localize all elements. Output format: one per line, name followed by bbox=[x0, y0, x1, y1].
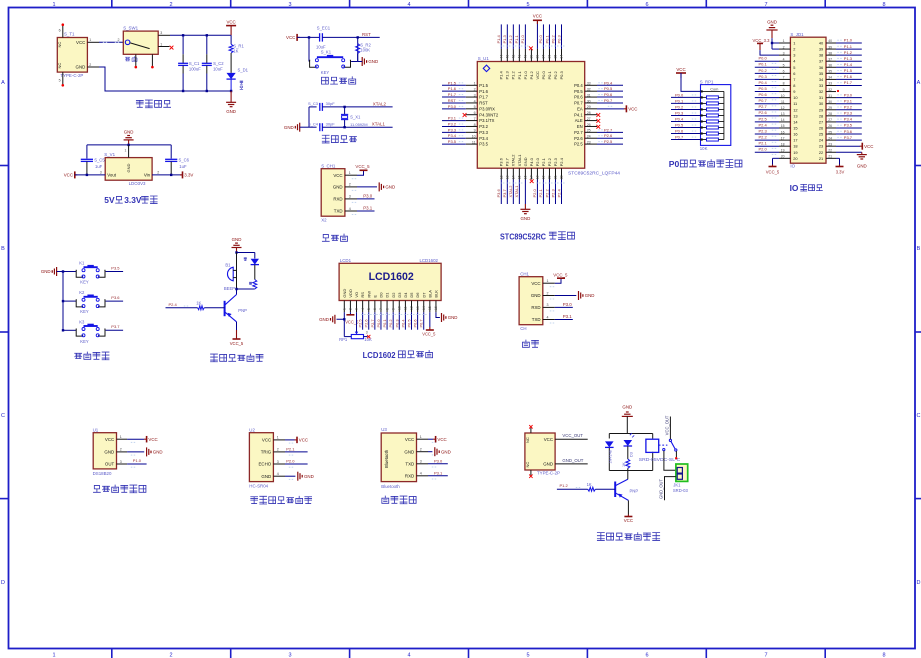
svg-text:P3.1/TX: P3.1/TX bbox=[479, 118, 494, 123]
wire net P2.1 TRIG bbox=[285, 451, 308, 453]
svg-text:33: 33 bbox=[819, 83, 823, 88]
svg-text:28: 28 bbox=[587, 111, 591, 115]
svg-text:P0.3: P0.3 bbox=[759, 74, 768, 79]
wire net P3.3 (JD1 right) bbox=[836, 115, 862, 117]
wire net P2.2 (bottom) bbox=[548, 180, 550, 205]
svg-text:P2.4: P2.4 bbox=[759, 122, 768, 127]
svg-text:P1.6: P1.6 bbox=[844, 74, 853, 79]
svg-text:VCC: VCC bbox=[628, 107, 637, 112]
wire GND_OUT bbox=[555, 463, 588, 465]
svg-text:S_K1: S_K1 bbox=[321, 49, 332, 54]
svg-text:2: 2 bbox=[783, 45, 785, 49]
svg-text:GND: GND bbox=[342, 289, 347, 298]
svg-text:3: 3 bbox=[783, 51, 785, 55]
svg-text:P0.1: P0.1 bbox=[547, 70, 552, 79]
JD1 pin 32 (right) bbox=[826, 91, 836, 93]
svg-text:P3.0: P3.0 bbox=[434, 458, 443, 463]
JD1 pin 21 (right) bbox=[826, 157, 836, 159]
svg-text:2: 2 bbox=[420, 448, 422, 452]
JD1 pin 36 (right) bbox=[826, 66, 836, 68]
svg-text:37: 37 bbox=[828, 57, 832, 61]
capacitor S_EC1 10uF bbox=[319, 33, 321, 41]
wire net P0.3 pullup bbox=[671, 114, 701, 116]
svg-text:P2.1: P2.1 bbox=[538, 188, 543, 197]
MCU top pin 36 P0.1 bbox=[548, 49, 550, 62]
svg-text:40: 40 bbox=[828, 39, 832, 43]
svg-text:P3.6: P3.6 bbox=[111, 295, 120, 300]
svg-text:22: 22 bbox=[560, 175, 564, 179]
svg-text:1: 1 bbox=[547, 279, 549, 283]
MCU top pin 35 P0.2 bbox=[554, 49, 556, 62]
wire net P0.6 (right) bbox=[597, 96, 623, 98]
wire net P3.1 BT bbox=[428, 475, 448, 477]
svg-text:P0.0: P0.0 bbox=[376, 319, 381, 328]
svg-text:26: 26 bbox=[587, 123, 591, 127]
wire net P1.5 (left) bbox=[442, 84, 466, 86]
svg-text:2: 2 bbox=[793, 47, 795, 52]
svg-text:15: 15 bbox=[428, 306, 432, 310]
svg-text:23: 23 bbox=[828, 142, 832, 146]
svg-text:6: 6 bbox=[373, 308, 377, 310]
svg-text:P0.0: P0.0 bbox=[759, 56, 768, 61]
ground GND reset bbox=[361, 57, 363, 66]
svg-text:1: 1 bbox=[52, 2, 55, 8]
svg-text:P1.4: P1.4 bbox=[499, 70, 504, 79]
svg-text:D3: D3 bbox=[397, 292, 402, 298]
svg-text:P0: P0 bbox=[669, 159, 680, 169]
JD1 pin 10 (left) bbox=[779, 97, 790, 99]
wire net P3.5 bbox=[106, 271, 124, 273]
svg-text:S_JD1: S_JD1 bbox=[790, 32, 804, 37]
wire net P3.4 (left) bbox=[442, 137, 466, 139]
svg-text:K3: K3 bbox=[79, 320, 85, 325]
RP1 resistor element P0.2 bbox=[701, 108, 707, 110]
wire net P2.5 LCD bbox=[362, 312, 364, 329]
resistor 1K relay base bbox=[595, 488, 615, 490]
svg-text:GND: GND bbox=[304, 474, 314, 479]
svg-text:GND: GND bbox=[585, 293, 595, 298]
svg-text:D5: D5 bbox=[409, 292, 414, 298]
svg-text:1: 1 bbox=[277, 436, 279, 440]
MCU top pin 43 P1.3 bbox=[506, 49, 508, 62]
svg-text:DS18B20: DS18B20 bbox=[93, 471, 112, 476]
JD1 pin 24 (right) bbox=[826, 139, 836, 141]
svg-text:P3.2: P3.2 bbox=[479, 124, 488, 129]
svg-text:11: 11 bbox=[472, 141, 476, 145]
wire net P2.4 (JD1 left) bbox=[755, 127, 779, 129]
wire net P2.4 bbox=[166, 307, 198, 309]
svg-text:VCC_5: VCC_5 bbox=[553, 272, 568, 277]
svg-text:VCC: VCC bbox=[531, 281, 540, 286]
switch bottom pin b bbox=[151, 54, 153, 66]
svg-text:VCC: VCC bbox=[148, 437, 157, 442]
wire net P2.4 (bottom) bbox=[561, 180, 563, 205]
svg-text:19: 19 bbox=[541, 175, 545, 179]
wire net P3.1 (JD1 right) bbox=[836, 103, 862, 105]
svg-text:21: 21 bbox=[553, 175, 557, 179]
svg-text:3: 3 bbox=[349, 195, 351, 199]
svg-text:SRD-03: SRD-03 bbox=[673, 488, 689, 493]
svg-text:1: 1 bbox=[474, 82, 476, 86]
svg-text:P1.6: P1.6 bbox=[448, 86, 457, 91]
wire EA to VCC bbox=[597, 108, 624, 110]
transistor Q1 PNP bbox=[236, 289, 238, 295]
svg-text:S_R1: S_R1 bbox=[233, 43, 244, 48]
wire net P0.7 (right) bbox=[597, 102, 623, 104]
svg-text:Bluetooth: Bluetooth bbox=[381, 484, 400, 489]
svg-text:36: 36 bbox=[819, 65, 823, 70]
wire net P0.3 (top) bbox=[561, 24, 563, 49]
wire net P1.1 (JD1 right) bbox=[836, 48, 862, 50]
svg-text:VCC: VCC bbox=[535, 71, 540, 80]
connector T1 TYPE-C-2P bbox=[57, 38, 87, 73]
svg-text:VCC: VCC bbox=[405, 437, 414, 442]
svg-text:P2.0: P2.0 bbox=[535, 157, 540, 166]
MCU top pin 42 P1.2 bbox=[512, 49, 514, 62]
svg-text:P2.5: P2.5 bbox=[604, 139, 613, 144]
svg-text:5: 5 bbox=[59, 79, 61, 83]
svg-text:C: C bbox=[917, 413, 921, 419]
wire net P2.1 (JD1 left) bbox=[755, 145, 779, 147]
svg-text:4: 4 bbox=[361, 308, 365, 310]
svg-text:10K: 10K bbox=[700, 146, 708, 151]
MCU bottom pin 22 P2.4 bbox=[561, 168, 563, 179]
capacitor S_C2 10uF bbox=[206, 35, 208, 54]
svg-text:9: 9 bbox=[783, 88, 785, 92]
svg-text:TXD: TXD bbox=[405, 461, 414, 466]
relay switch contact bbox=[659, 444, 668, 446]
wire net P0.5 pullup bbox=[671, 127, 701, 129]
power port VCC_5 serial bbox=[557, 277, 565, 279]
svg-text:S_SW1: S_SW1 bbox=[123, 26, 138, 31]
svg-text:P0.2: P0.2 bbox=[550, 34, 555, 43]
svg-text:P2.0: P2.0 bbox=[532, 188, 537, 197]
resistor 1K base bbox=[204, 307, 224, 309]
MCU left pin 10 P3.4 bbox=[466, 137, 478, 139]
MCU right pin 27 ALE bbox=[585, 120, 597, 122]
svg-text:3: 3 bbox=[420, 460, 422, 464]
wire net P0.7 pullup bbox=[671, 139, 701, 141]
svg-text:GND: GND bbox=[520, 216, 530, 221]
JD1 pin 16 (left) bbox=[779, 133, 790, 135]
svg-text:7: 7 bbox=[379, 308, 383, 310]
svg-text:15: 15 bbox=[781, 124, 785, 128]
svg-text:RXD: RXD bbox=[531, 305, 540, 310]
JD1 pin 18 (left) bbox=[779, 145, 790, 147]
wire net P0.3 LCD bbox=[398, 312, 400, 329]
caption jingzhen dianlu bbox=[322, 135, 329, 143]
svg-text:8: 8 bbox=[783, 82, 785, 86]
caption anjian dianlu bbox=[75, 353, 82, 358]
svg-text:GND: GND bbox=[41, 269, 51, 274]
JD1 pin 15 (left) bbox=[779, 127, 790, 129]
svg-text:20: 20 bbox=[547, 175, 551, 179]
svg-text:11.0592M: 11.0592M bbox=[350, 122, 368, 127]
MCU top pin 44 P1.4 bbox=[500, 49, 502, 62]
svg-text:P0.6: P0.6 bbox=[413, 319, 418, 327]
switch pin 3 bbox=[158, 34, 170, 36]
svg-text:7: 7 bbox=[793, 77, 795, 82]
svg-text:1K: 1K bbox=[233, 49, 238, 54]
svg-text:29: 29 bbox=[819, 107, 823, 112]
MCU right pin 23 P2.5 bbox=[585, 143, 597, 145]
svg-text:14: 14 bbox=[422, 306, 426, 310]
svg-text:P0.3: P0.3 bbox=[556, 34, 561, 43]
svg-text:19: 19 bbox=[793, 150, 797, 155]
svg-text:P1.4: P1.4 bbox=[496, 34, 501, 43]
wire net P0.0 LCD bbox=[380, 312, 382, 329]
svg-text:P1.2: P1.2 bbox=[844, 50, 853, 55]
svg-text:14: 14 bbox=[511, 175, 515, 179]
svg-text:VCC_3.3: VCC_3.3 bbox=[753, 38, 771, 43]
svg-text:XTAL2: XTAL2 bbox=[511, 154, 516, 167]
svg-text:VCC_OUT: VCC_OUT bbox=[665, 415, 670, 435]
wire net P2.7 (JD1 left) bbox=[755, 109, 779, 111]
svg-text:RST: RST bbox=[479, 101, 488, 106]
svg-text:13: 13 bbox=[505, 175, 509, 179]
pot wiper unconnected bbox=[364, 336, 368, 338]
svg-text:P2.7: P2.7 bbox=[759, 104, 768, 109]
svg-text:P3.3: P3.3 bbox=[479, 130, 488, 135]
svg-text:3.3V: 3.3V bbox=[124, 195, 142, 205]
svg-text:CH: CH bbox=[520, 326, 526, 331]
svg-text:P3.3: P3.3 bbox=[448, 127, 457, 132]
svg-text:35: 35 bbox=[819, 71, 823, 76]
svg-text:S_C3: S_C3 bbox=[308, 101, 319, 106]
svg-text:41: 41 bbox=[517, 55, 521, 59]
LED D3 relay bbox=[624, 440, 633, 446]
wire net P3.7 (bottom) bbox=[506, 180, 508, 205]
svg-text:VCC: VCC bbox=[544, 437, 553, 442]
JD1 pin 14 (left) bbox=[779, 121, 790, 123]
svg-text:1N4148: 1N4148 bbox=[609, 450, 613, 463]
svg-text:GND: GND bbox=[523, 157, 528, 166]
svg-text:GND_OUT: GND_OUT bbox=[562, 458, 583, 463]
svg-text:P2.5: P2.5 bbox=[759, 116, 768, 121]
potentiometer RP1 10K bbox=[343, 319, 345, 336]
svg-text:HC-SR04: HC-SR04 bbox=[249, 484, 268, 489]
caption dianyuan dianlu bbox=[136, 100, 143, 107]
wire net P3.2 (left) bbox=[442, 125, 466, 127]
wire net P3.3 (left) bbox=[442, 131, 466, 133]
wire net P0.6 (JD1 left) bbox=[755, 97, 779, 99]
svg-text:S_CH1: S_CH1 bbox=[321, 163, 336, 168]
wire net P0.7 (JD1 left) bbox=[755, 103, 779, 105]
svg-text:2: 2 bbox=[89, 63, 91, 67]
svg-text:6: 6 bbox=[793, 71, 795, 76]
JD1 pin 40 (right) bbox=[826, 42, 836, 44]
svg-text:TYPE-C-2P: TYPE-C-2P bbox=[60, 73, 83, 78]
svg-text:37: 37 bbox=[819, 59, 823, 64]
wire CH1 GND bbox=[555, 295, 577, 297]
svg-text:TRIG: TRIG bbox=[261, 450, 272, 455]
svg-text:18: 18 bbox=[535, 175, 539, 179]
svg-text:37: 37 bbox=[541, 55, 545, 59]
wire alarm top node bbox=[237, 252, 255, 254]
svg-text:28: 28 bbox=[828, 112, 832, 116]
wire net P2.5 (right) bbox=[597, 143, 623, 145]
svg-text:P0.3: P0.3 bbox=[394, 319, 399, 327]
JD1 pin 5 (left) bbox=[779, 66, 790, 68]
svg-text:3: 3 bbox=[355, 308, 359, 310]
svg-text:GND: GND bbox=[124, 129, 134, 134]
relay coil SRD-05VDC-SL-C bbox=[646, 439, 659, 452]
svg-text:P1.5: P1.5 bbox=[844, 68, 853, 73]
svg-text:P0.6: P0.6 bbox=[675, 129, 684, 134]
svg-text:6: 6 bbox=[783, 70, 785, 74]
svg-text:P0.0: P0.0 bbox=[675, 92, 684, 97]
ground GND JD1 pin22 bbox=[836, 151, 862, 153]
svg-text:XTAL1: XTAL1 bbox=[372, 122, 386, 127]
svg-text:JK1: JK1 bbox=[673, 482, 681, 487]
JD1 pin 31 (right) bbox=[826, 97, 836, 99]
svg-text:23: 23 bbox=[819, 144, 823, 149]
svg-text:PNP: PNP bbox=[238, 308, 247, 313]
wire net P0.0 (top) bbox=[542, 24, 544, 49]
svg-text:GND: GND bbox=[543, 462, 553, 467]
svg-text:8: 8 bbox=[385, 308, 389, 310]
svg-text:P1.7: P1.7 bbox=[479, 95, 488, 100]
caption chaoshengbo ceju mokuai bbox=[251, 497, 258, 504]
wire net P0.1 (JD1 left) bbox=[755, 66, 779, 68]
MCU right pin 26 EN bbox=[585, 125, 597, 127]
wire net P3.0 (JD1 right) bbox=[836, 97, 862, 99]
MCU right pin 31 P0.6 bbox=[585, 96, 597, 98]
wire net P0.5 (JD1 left) bbox=[755, 91, 779, 93]
buzzer B1 BEEP bbox=[236, 253, 238, 290]
MCU bottom pin 12 P3.6 bbox=[500, 168, 502, 179]
wire net P3.7 (JD1 right) bbox=[836, 139, 862, 141]
svg-text:P0.1: P0.1 bbox=[544, 34, 549, 43]
svg-text:6: 6 bbox=[645, 2, 648, 8]
svg-text:5: 5 bbox=[474, 105, 476, 109]
svg-text:EA: EA bbox=[577, 106, 583, 111]
wire net P1.5 (JD1 right) bbox=[836, 72, 862, 74]
wire net P1.6 (JD1 right) bbox=[836, 78, 862, 80]
svg-text:Vin: Vin bbox=[144, 173, 151, 178]
svg-text:4: 4 bbox=[277, 472, 279, 476]
svg-text:P1.4: P1.4 bbox=[844, 62, 853, 67]
svg-text:P0.7: P0.7 bbox=[759, 98, 768, 103]
JD1 pin 19 (left) bbox=[779, 151, 790, 153]
svg-text:P1.5: P1.5 bbox=[479, 83, 488, 88]
switch pin 1 (unconnected) bbox=[158, 46, 169, 48]
svg-text:6: 6 bbox=[59, 29, 61, 33]
svg-text:P1.1: P1.1 bbox=[514, 34, 519, 43]
svg-text:IO: IO bbox=[790, 183, 799, 193]
svg-text:34: 34 bbox=[828, 76, 832, 80]
svg-text:P2.6: P2.6 bbox=[604, 133, 613, 138]
svg-text:P2.1: P2.1 bbox=[759, 141, 768, 146]
svg-text:2: 2 bbox=[277, 448, 279, 452]
svg-text:3: 3 bbox=[547, 303, 549, 307]
svg-text:P3.6: P3.6 bbox=[844, 129, 853, 134]
svg-text:S_C1: S_C1 bbox=[189, 61, 200, 66]
svg-text:25: 25 bbox=[819, 132, 823, 137]
MCU right pin 24 P2.6 bbox=[585, 137, 597, 139]
wire net P0.4 LCD bbox=[404, 312, 406, 329]
wire T1 GND down to bottom rail bbox=[99, 67, 183, 91]
wire net XTAL2 (bottom) bbox=[512, 180, 514, 205]
svg-text:GND: GND bbox=[385, 185, 395, 190]
JD1 pin 7 (left) bbox=[779, 78, 790, 80]
svg-text:RXD: RXD bbox=[405, 473, 414, 478]
svg-text:4: 4 bbox=[547, 315, 549, 319]
svg-text:P0.1: P0.1 bbox=[759, 62, 768, 67]
wire net P2.6 LCD bbox=[368, 312, 370, 329]
MCU left pin 8 P3.2 bbox=[466, 125, 478, 127]
JD1 pin 30 (right) bbox=[826, 103, 836, 105]
svg-text:VCC_5: VCC_5 bbox=[355, 164, 370, 169]
ground GND Bluetooth bbox=[434, 447, 436, 456]
svg-text:P3.4: P3.4 bbox=[844, 117, 853, 122]
JD1 pin 33 (right) bbox=[826, 84, 836, 86]
svg-text:RST: RST bbox=[448, 98, 457, 103]
svg-text:1: 1 bbox=[420, 435, 422, 439]
svg-text:EN: EN bbox=[577, 124, 583, 129]
svg-text:S_RP1: S_RP1 bbox=[700, 80, 714, 85]
svg-text:P4.0: P4.0 bbox=[529, 157, 534, 166]
wire X2 RXD / net P3.0 bbox=[357, 198, 375, 200]
power port VCC JD1 pin23 bbox=[836, 145, 860, 147]
power port VCC_5 JD1 pin20 bbox=[773, 157, 780, 159]
JD1 pin 1 (left) bbox=[779, 42, 790, 44]
svg-text:VCC: VCC bbox=[333, 173, 342, 178]
svg-text:4: 4 bbox=[474, 99, 476, 103]
svg-text:KEY: KEY bbox=[80, 339, 89, 344]
svg-text:4: 4 bbox=[407, 2, 410, 8]
svg-text:GND: GND bbox=[441, 449, 451, 454]
svg-text:P1.3: P1.3 bbox=[505, 70, 510, 79]
red no-connect JD1 pin32 bbox=[837, 90, 839, 92]
svg-text:9: 9 bbox=[391, 308, 395, 310]
svg-text:P3.1: P3.1 bbox=[844, 98, 853, 103]
svg-text:NC: NC bbox=[57, 42, 62, 48]
MCU top pin 38 VCC bbox=[536, 49, 538, 62]
wire net P1.3 (top) bbox=[506, 24, 508, 49]
svg-text:GND: GND bbox=[104, 450, 114, 455]
svg-text:VDD: VDD bbox=[348, 289, 353, 298]
svg-text:P2.3: P2.3 bbox=[759, 128, 768, 133]
wire VCC_3.3 to JD1 pin3 bbox=[760, 50, 779, 55]
svg-text:XTAL1: XTAL1 bbox=[514, 185, 519, 198]
wire CH1 VCC to VCC_5 bbox=[555, 278, 561, 283]
ground GND serial bbox=[578, 291, 580, 300]
svg-text:12: 12 bbox=[410, 306, 414, 310]
wire net P3.4 (JD1 right) bbox=[836, 121, 862, 123]
svg-text:34: 34 bbox=[560, 55, 564, 59]
svg-text:GND: GND bbox=[767, 19, 777, 24]
wire net P1.6 (left) bbox=[442, 90, 466, 92]
svg-text:P3.0: P3.0 bbox=[563, 302, 573, 307]
svg-text:1: 1 bbox=[793, 41, 795, 46]
svg-text:GND: GND bbox=[232, 237, 242, 242]
svg-text:GND: GND bbox=[448, 315, 458, 320]
JD1 pin 35 (right) bbox=[826, 72, 836, 74]
RP1 resistor element P0.4 bbox=[701, 120, 707, 122]
LCD1 LCD1602 module body bbox=[339, 263, 441, 300]
svg-text:RS: RS bbox=[360, 292, 365, 298]
svg-text:VCC: VCC bbox=[105, 437, 114, 442]
svg-text:VCC_5: VCC_5 bbox=[766, 170, 780, 175]
svg-text:P1.2: P1.2 bbox=[560, 483, 569, 488]
svg-text:S_V1: S_V1 bbox=[104, 152, 115, 157]
MCU top pin 34 P0.3 bbox=[561, 49, 563, 62]
MCU top pin 39 P4.2 bbox=[530, 49, 532, 62]
wire GND (bottom) bbox=[524, 180, 526, 205]
svg-text:D0: D0 bbox=[379, 292, 384, 298]
svg-text:42: 42 bbox=[511, 55, 515, 59]
